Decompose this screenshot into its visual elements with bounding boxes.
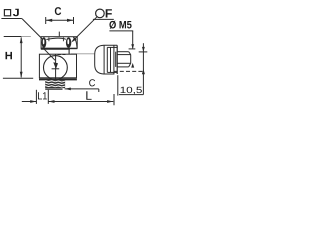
M5 thread top outer line bbox=[117, 51, 129, 53]
side view right edge bbox=[116, 45, 118, 74]
threaded stud (front view) bbox=[45, 80, 65, 88]
L1 outside arrow line bbox=[22, 101, 36, 103]
label L bbox=[86, 91, 91, 100]
hex nut right facet arc bbox=[73, 37, 77, 47]
side view hex top inset line bbox=[107, 46, 117, 48]
square symbol for J label bbox=[4, 10, 10, 16]
hex nut right facet lens bbox=[66, 37, 71, 48]
M5 thread bottom inner line bbox=[117, 62, 131, 64]
hex nut facet arcs on top bbox=[46, 38, 66, 39]
extension line right of L bbox=[113, 94, 115, 105]
dimension L1 extension right bbox=[47, 90, 49, 104]
C bottom stub down bbox=[98, 89, 100, 92]
side view body outline bbox=[95, 45, 118, 74]
extension tick at thread top bbox=[129, 48, 136, 50]
extension tick at thread top right bbox=[139, 51, 148, 53]
centerline above hex nut bbox=[58, 32, 60, 37]
circle symbol for F label bbox=[96, 9, 105, 18]
arrowhead of J leader at circle center bbox=[53, 62, 58, 69]
label L1 bbox=[38, 92, 47, 99]
banjo ring circle bbox=[44, 56, 68, 80]
dimension vertical right for 10,5 bbox=[142, 43, 144, 94]
arrowhead down at tick bbox=[142, 47, 145, 52]
dashed centerline of banjo axis bbox=[114, 70, 145, 72]
extension line H top faint continuation bbox=[21, 36, 30, 38]
M5 thread end chamfer top bbox=[129, 52, 131, 55]
dimension line L bbox=[48, 101, 113, 103]
M5 thread end chamfer bottom bbox=[129, 63, 131, 67]
side view inner vertical 4 bbox=[113, 45, 115, 74]
side view inner vertical 2 bbox=[106, 47, 108, 72]
hex nut bottom edge right thin part bbox=[70, 48, 77, 50]
arrowhead of F leader bbox=[71, 37, 76, 42]
washer edge tick below right lens bbox=[68, 49, 70, 54]
shelf under 10,5 bbox=[119, 94, 143, 96]
label H bbox=[6, 52, 13, 59]
arrowhead up of H dim bbox=[20, 37, 23, 43]
extension tick right of C dim bbox=[73, 17, 75, 24]
side view inner vertical 3 bbox=[110, 47, 112, 72]
hex nut outline (front view) bbox=[41, 37, 77, 49]
hex nut left facet lens bbox=[42, 37, 47, 48]
leader continuation into circle bbox=[42, 47, 55, 60]
hex nut mid facet ticks bbox=[49, 37, 64, 41]
arrowhead right of C dim bbox=[67, 19, 73, 22]
M5 thread end vertical bbox=[130, 55, 132, 64]
stud bottom edge bbox=[45, 88, 62, 90]
dimension L1 extension left bbox=[35, 90, 37, 104]
label 10,5 bbox=[121, 87, 142, 94]
extension tick left of C dim bbox=[45, 17, 47, 24]
body bottom thick edge bbox=[39, 78, 77, 80]
arrowhead up at centerline bbox=[142, 69, 145, 74]
arrowhead down at thread top bbox=[131, 44, 134, 49]
side view inner vertical 1 bbox=[103, 45, 105, 74]
label C (top dimension) bbox=[55, 7, 61, 15]
label diameter M5 bbox=[109, 21, 131, 29]
arrowhead left of C dim bbox=[46, 19, 52, 22]
hex nut bottom thick edge bbox=[41, 48, 70, 50]
vertical centerline into circle bbox=[55, 54, 57, 79]
L arrowhead right bbox=[107, 100, 113, 103]
leader shelf under M5 bbox=[109, 30, 133, 32]
body square (front view) bbox=[39, 54, 76, 78]
leader vertical from M5 shelf down to thread bbox=[132, 31, 134, 48]
dimension C (bottom) shelf bbox=[65, 88, 99, 90]
side view inner vertical 5 bbox=[115, 52, 117, 67]
center cross tick bbox=[52, 68, 60, 70]
extension line from side view right edge down bbox=[117, 75, 119, 95]
arrowhead up at thread bottom bbox=[131, 63, 134, 68]
arrowhead down of H dim bbox=[20, 72, 23, 78]
left lens white sliver bbox=[43, 39, 45, 44]
M5 thread top inner line bbox=[117, 54, 131, 56]
hidden dash at circle top bbox=[58, 54, 66, 56]
leader diagonal from F to hex nut corner bbox=[73, 17, 97, 41]
C bottom label bbox=[89, 79, 95, 86]
side view hex bottom inset line bbox=[107, 71, 117, 73]
extension line H top bbox=[4, 36, 22, 38]
leader diagonal from J to hex nut flat bbox=[22, 19, 44, 41]
label F bbox=[106, 9, 112, 17]
right lens white sliver bbox=[67, 39, 69, 44]
leader shelf under J bbox=[1, 18, 22, 20]
M5 thread bottom outer line bbox=[117, 66, 129, 68]
leader shelf under OF bbox=[93, 18, 114, 20]
dimension line H vertical bbox=[20, 37, 22, 77]
L arrowhead left bbox=[48, 100, 54, 103]
extension line H bottom bbox=[3, 77, 33, 79]
label J bbox=[13, 9, 19, 17]
dimension line C (top) bbox=[46, 19, 74, 21]
L1 arrowhead pointing right bbox=[30, 100, 36, 103]
projection line between views bbox=[71, 53, 95, 55]
stud thread white hatching bbox=[45, 81, 65, 87]
C bottom arrowhead pointing left at stud bbox=[65, 88, 71, 91]
